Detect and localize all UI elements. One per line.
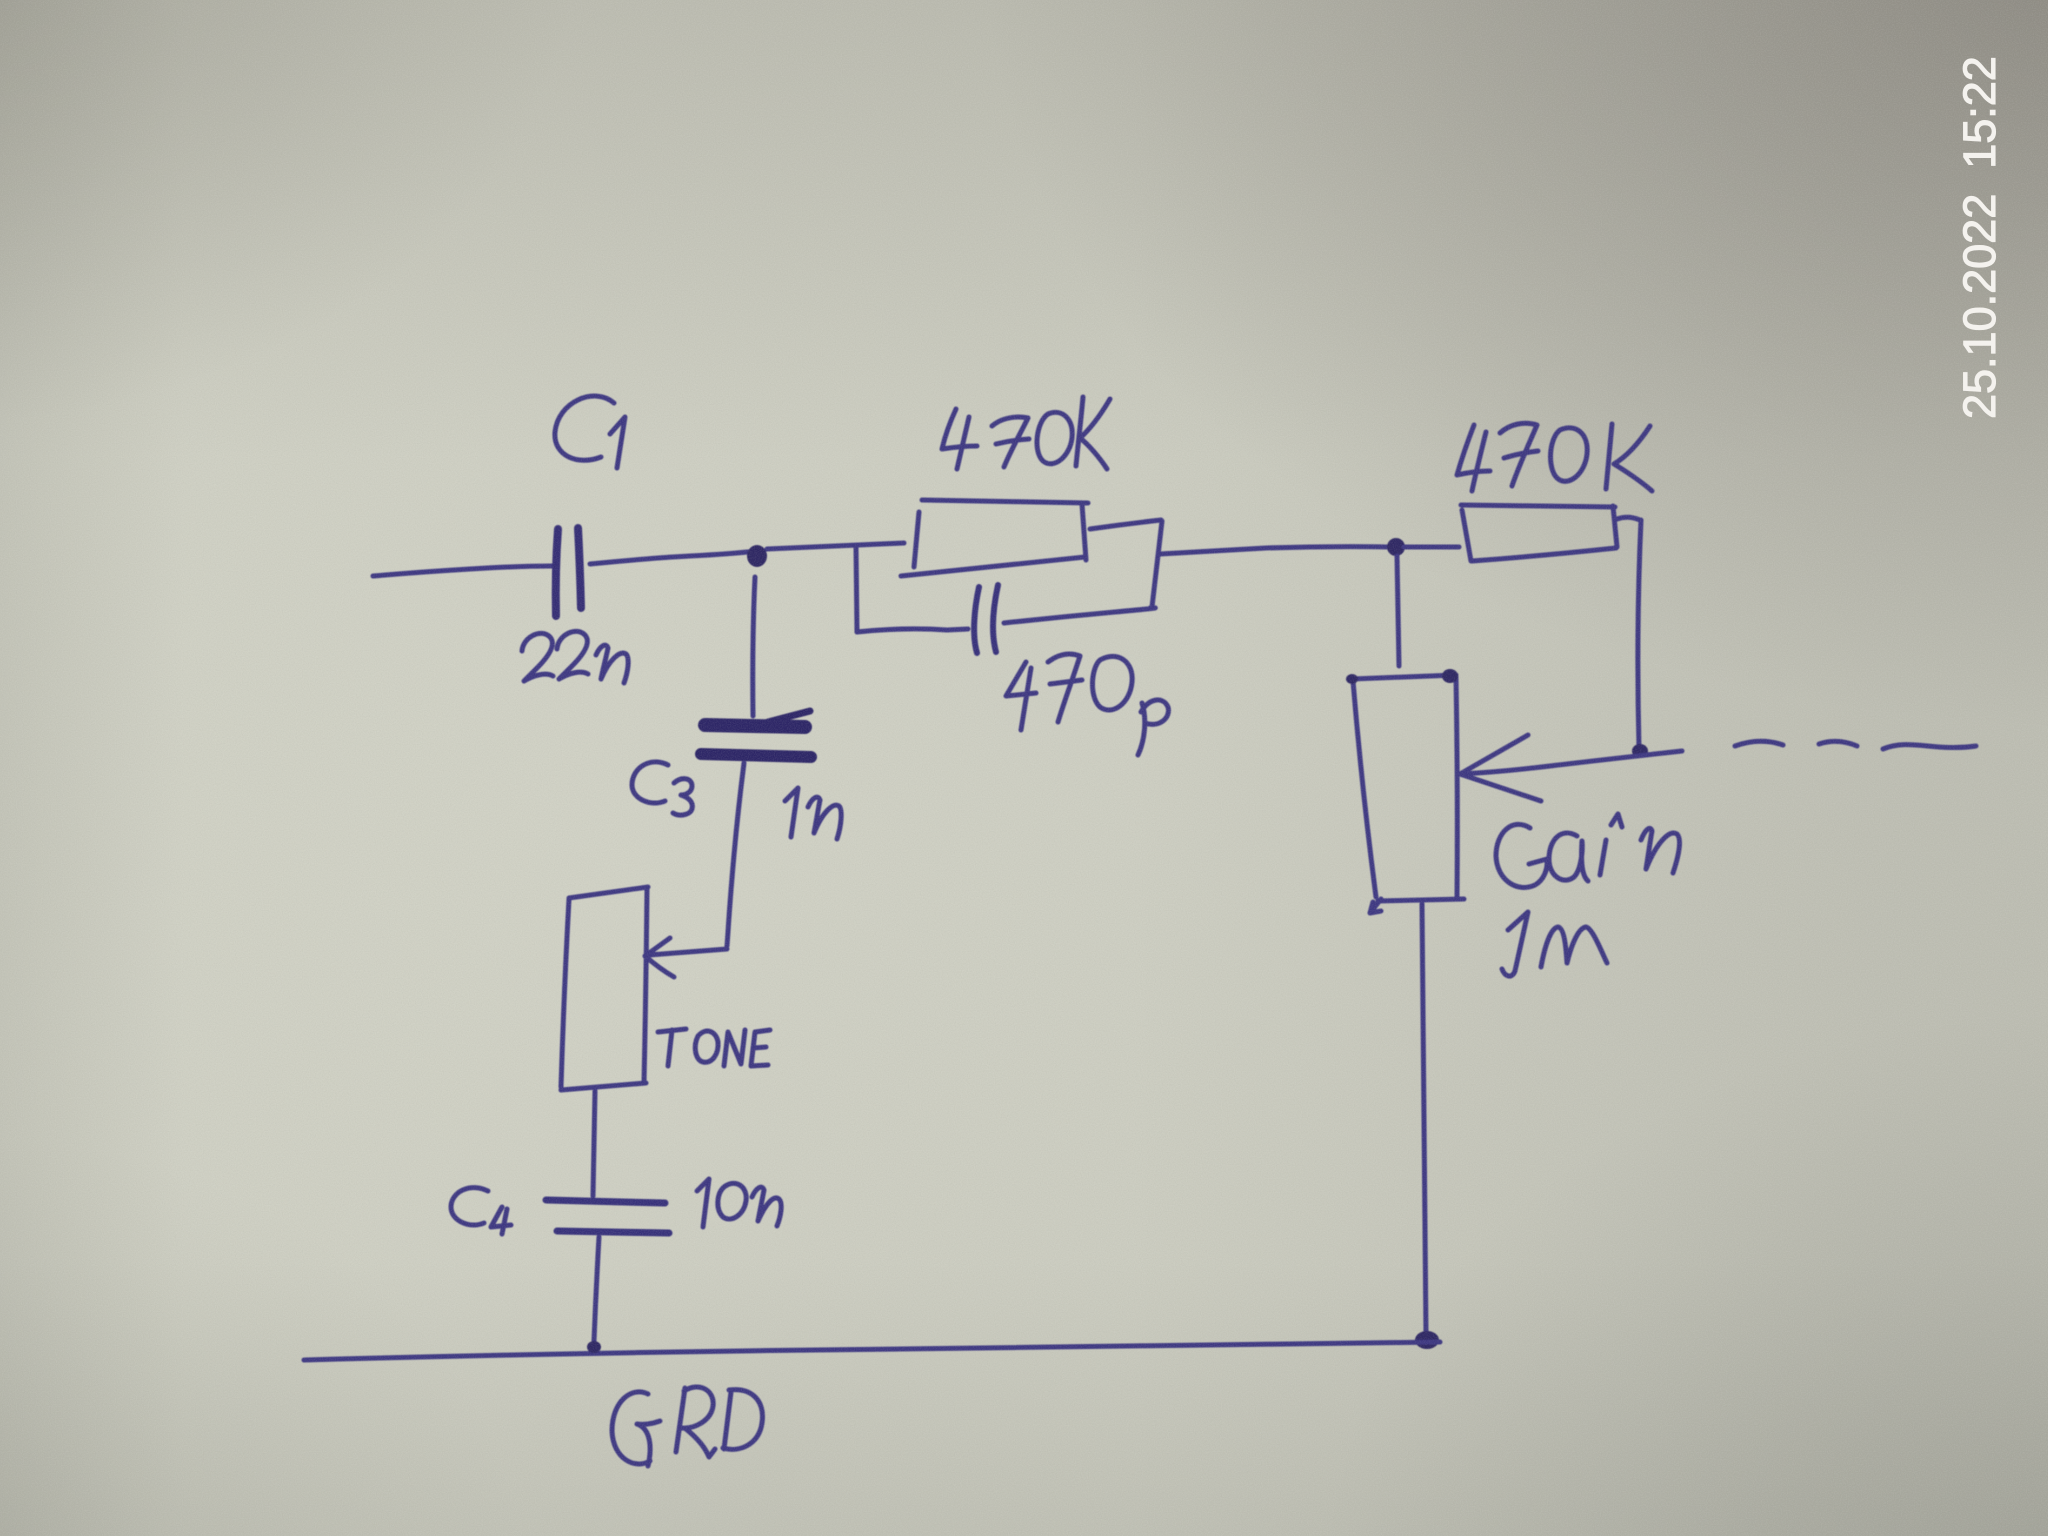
wire node B to resistor 470K right: [1404, 545, 1459, 550]
resistor 470K right box: [1461, 505, 1617, 561]
node A junction dot: [747, 545, 767, 567]
potentiometer TONE box: [561, 887, 648, 1090]
timestamp 25.10.2022 15:22: [1953, 418, 1955, 420]
label C4: [451, 1188, 511, 1234]
label 10n value of C4: [697, 1179, 781, 1227]
wire C1 to node A: [590, 551, 757, 564]
capacitor 470p: [974, 585, 998, 653]
ground tap dot: [587, 1341, 601, 1353]
label 1M: [1502, 912, 1607, 976]
wire 470p to right edge of loop: [1004, 608, 1155, 623]
wiper wire of Gain pot with arrowhead: [1460, 735, 1682, 801]
wire branch drop to capacitor branch: [856, 547, 857, 632]
wire C4 to ground: [594, 1237, 599, 1341]
capacitor C4 plate bottom: [557, 1231, 669, 1233]
capacitor C1: [556, 528, 581, 616]
wire resistor to node B: [1160, 547, 1392, 554]
label TONE: [658, 1029, 770, 1066]
wire node A down to C3: [753, 577, 755, 716]
label GRD: [612, 1387, 762, 1466]
wire Gain pot to ground: [1422, 904, 1426, 1335]
pot end dots: [1346, 669, 1458, 684]
wire input left: [373, 566, 552, 576]
label 1n value of C3: [785, 788, 841, 839]
wire C3 to TONE wiper: [727, 763, 744, 946]
wire TONE to C4: [593, 1091, 595, 1196]
label 22n value of C1: [522, 631, 628, 683]
label C3: [632, 762, 692, 815]
label 470K right: [1457, 423, 1652, 491]
wire node A to resistor branch: [767, 543, 904, 549]
label 470p: [1006, 654, 1168, 755]
ground junction dot: [1415, 1331, 1439, 1349]
wire lower branch to 470p: [857, 629, 968, 632]
wire node B down to Gain pot: [1397, 556, 1399, 666]
label C1: [555, 396, 625, 468]
capacitor C4 plate top: [546, 1200, 665, 1203]
potentiometer Gain 1M box: [1352, 675, 1464, 913]
wire loop top edge: [1090, 520, 1161, 529]
wire loop right edge up: [1152, 521, 1162, 607]
capacitor C3 plate top: [705, 711, 810, 727]
label 470K middle: [942, 397, 1110, 469]
ground wire GRD: [304, 1342, 1440, 1360]
wire jog from resistor right: [1617, 517, 1640, 520]
wiper wire of TONE pot with arrowhead: [645, 938, 727, 977]
node B junction dot: [1387, 538, 1405, 556]
resistor 470K middle box: [901, 500, 1088, 576]
dashed wire continuation: [1735, 741, 1976, 749]
wiper junction blob: [1632, 744, 1648, 758]
capacitor C3 plate bottom: [701, 754, 811, 757]
label Gain: [1496, 814, 1680, 887]
wire right vertical down to wiper: [1638, 520, 1641, 748]
